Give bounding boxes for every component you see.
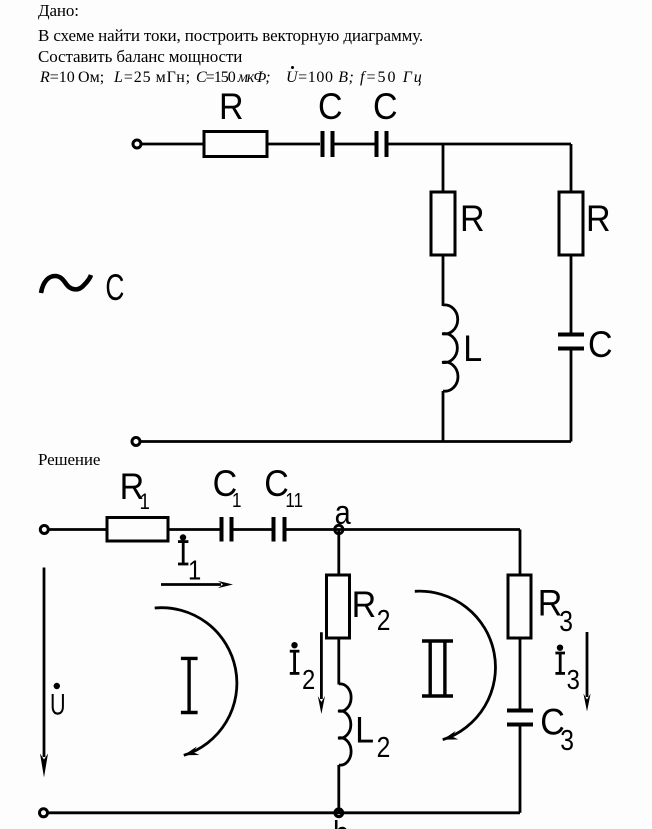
svg-text:1: 1	[232, 489, 241, 512]
svg-text:1: 1	[188, 554, 201, 586]
svg-text:11: 11	[285, 489, 303, 512]
svg-text:C: C	[588, 324, 613, 366]
svg-text:R: R	[352, 584, 377, 626]
svg-text:C: C	[373, 86, 398, 128]
svg-text:C: C	[105, 267, 124, 309]
svg-text:2: 2	[377, 731, 391, 763]
svg-text:U: U	[50, 687, 66, 721]
svg-text:3: 3	[567, 663, 580, 695]
svg-text:3: 3	[559, 605, 573, 637]
svg-text:3: 3	[560, 724, 574, 756]
svg-text:2: 2	[302, 663, 315, 695]
svg-text:2: 2	[377, 604, 391, 636]
svg-text:b: b	[333, 814, 349, 829]
svg-text:L: L	[355, 709, 374, 751]
svg-text:R: R	[460, 198, 485, 240]
svg-text:L: L	[463, 328, 482, 370]
svg-text:R: R	[586, 198, 611, 240]
svg-text:1: 1	[140, 491, 150, 515]
svg-text:C: C	[318, 86, 343, 128]
svg-text:R: R	[219, 86, 244, 128]
svg-text:a: a	[335, 493, 351, 532]
